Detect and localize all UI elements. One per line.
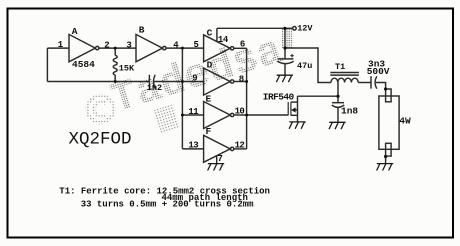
svg-text:1n2: 1n2 — [147, 83, 162, 93]
svg-text:1n8: 1n8 — [341, 105, 358, 116]
wire E input — [182, 114, 203, 116]
op-amp U1D inverter D — [204, 68, 231, 95]
wire F out — [234, 148, 247, 150]
svg-text:12: 12 — [235, 140, 245, 150]
resistor R1 15K — [114, 48, 116, 55]
ground source — [289, 122, 306, 129]
wire lamp bottom — [385, 156, 387, 163]
svg-text:D: D — [207, 59, 213, 70]
svg-text:4584: 4584 — [72, 59, 95, 70]
svg-text:C: C — [207, 27, 213, 38]
svg-text:XQ2FOD: XQ2FOD — [69, 129, 132, 149]
ground pin7 — [208, 164, 225, 171]
node E in — [181, 114, 184, 117]
wire B out to C in — [166, 47, 204, 49]
svg-text:13: 13 — [188, 141, 198, 151]
watermark diagonal text — [106, 27, 293, 134]
node 12V rail — [283, 27, 286, 30]
node D in — [181, 80, 184, 83]
wire cap 1n2 to bus — [154, 81, 183, 83]
svg-text:T1: T1 — [335, 62, 345, 72]
wire 3n3 to lamp — [376, 83, 386, 90]
svg-text:14: 14 — [218, 35, 229, 45]
wire drain — [298, 95, 339, 97]
svg-text:IRF540: IRF540 — [263, 92, 295, 103]
capacitor C3 1n8 — [332, 102, 344, 104]
wire gate — [247, 114, 289, 116]
node drain / tap — [336, 95, 339, 98]
lamp filament bottom — [386, 143, 392, 156]
svg-text:9: 9 — [192, 74, 197, 84]
op-amp U1B inverter B — [136, 34, 162, 61]
transformer T1 core — [330, 73, 359, 76]
node lamp top — [384, 87, 387, 90]
wire D out — [234, 81, 247, 83]
svg-text:33 turns 0.5mm + 200 turns 0.2: 33 turns 0.5mm + 200 turns 0.2mm — [81, 199, 254, 209]
svg-text:E: E — [206, 93, 212, 104]
wire feedback bottom — [47, 81, 149, 83]
wire T1 tap down — [337, 83, 339, 103]
svg-text:4W: 4W — [399, 116, 411, 127]
wire pin 7 stub — [216, 156, 218, 164]
svg-text:47u: 47u — [297, 61, 312, 71]
capacitor C1 1n2 — [148, 75, 150, 89]
node lamp bottom — [384, 155, 387, 158]
op-amp U1A inverter A — [69, 34, 95, 61]
op-amp U1F inverter F — [204, 135, 231, 162]
svg-text:11: 11 — [188, 107, 199, 117]
transformer T1 winding — [331, 78, 358, 82]
node 12V branch — [283, 46, 286, 49]
node B out — [181, 47, 184, 50]
svg-text:A: A — [72, 26, 78, 37]
svg-text:15K: 15K — [119, 63, 135, 73]
op-amp U1E inverter E — [204, 102, 231, 129]
wire E out — [234, 114, 247, 116]
node D out — [245, 80, 248, 83]
transistor Q1 IRF540 — [287, 102, 289, 115]
node 15K bottom — [114, 80, 117, 83]
wire T1 to 3n3 — [358, 82, 371, 84]
terminal 12V circle — [293, 27, 297, 31]
svg-text:3: 3 — [126, 41, 131, 51]
svg-text:2: 2 — [104, 41, 109, 51]
svg-text:7: 7 — [218, 154, 223, 164]
capacitor C2 47u — [284, 48, 286, 59]
wire input bus — [181, 48, 183, 149]
svg-text:500V: 500V — [367, 66, 390, 77]
capacitor C4 3n3 — [370, 76, 372, 89]
wire feedback left vertical — [46, 48, 48, 81]
transistor Q1 arrow — [291, 107, 295, 112]
ground 1n8 — [329, 122, 346, 129]
wire pin 14 stub — [216, 28, 218, 41]
wire D input — [182, 81, 203, 83]
svg-text:5: 5 — [194, 40, 199, 50]
terminal 12V stub — [285, 27, 293, 29]
wire C out — [234, 47, 247, 49]
node E out / gate — [245, 114, 248, 117]
op-amp U1C inverter C — [204, 35, 231, 62]
wire 12V down — [284, 28, 286, 48]
svg-text:6: 6 — [240, 39, 245, 49]
svg-text:8: 8 — [239, 75, 244, 85]
wire 12V to T1 — [285, 48, 331, 83]
svg-text:12V: 12V — [297, 24, 313, 34]
wire A out to B in — [99, 47, 136, 49]
node A out / 15K top — [114, 47, 117, 50]
wire F input — [182, 148, 203, 150]
svg-text:1: 1 — [58, 40, 64, 50]
svg-text:10: 10 — [235, 107, 245, 117]
wire output bus — [246, 48, 248, 149]
svg-text:4: 4 — [173, 40, 179, 50]
wire pin1 input A — [47, 47, 69, 49]
wire 12V rail — [217, 27, 285, 29]
svg-text:B: B — [139, 25, 145, 36]
lamp tube body — [379, 96, 399, 149]
ground lamp — [377, 164, 394, 171]
watermark copyright mark — [87, 96, 113, 122]
lamp filament top — [386, 89, 392, 102]
svg-text:F: F — [206, 126, 212, 137]
ground 47u — [276, 75, 293, 82]
